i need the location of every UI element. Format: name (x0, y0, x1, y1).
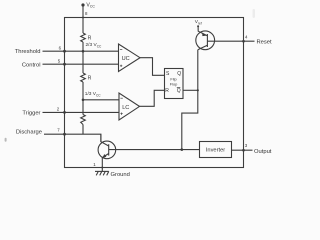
node pin 7 dot (63, 133, 66, 136)
transistor Q1 reset circle (196, 31, 215, 50)
node pin 8 dot (82, 17, 84, 19)
node Qbar junction dot (197, 89, 199, 91)
ground hatch strokes (96, 171, 109, 175)
node pin 1 dot (101, 167, 103, 169)
resistor R2 (81, 73, 86, 82)
ground symbol bar (95, 170, 109, 172)
wire Vcc down to R1 (82, 5, 84, 33)
wire 1/3 Vcc node to LC (83, 99, 119, 101)
svg-text:Inverter: Inverter (206, 148, 225, 154)
transistor Q2 emitter arrow (103, 154, 107, 158)
flip-flop Qbar overbar (177, 86, 181, 88)
svg-text:Flop: Flop (170, 81, 178, 86)
node base line junction dot (181, 148, 184, 151)
svg-text:Threshold: Threshold (15, 49, 41, 55)
node 1/3 Vcc junction dot (82, 99, 85, 102)
transistor Q1 base bar (206, 34, 208, 47)
wire Trigger pin 2 line (43, 111, 120, 113)
flip-flop U1 box (165, 69, 184, 99)
wire R2 to R3 (82, 82, 84, 115)
wire R3 to discharge line (82, 125, 84, 135)
resistor R3 (81, 115, 86, 125)
svg-text:LC: LC (122, 105, 129, 111)
svg-text:Ground: Ground (111, 172, 130, 178)
wire Output pin 3 line (232, 149, 253, 151)
wire reset base line pin 4 (207, 40, 254, 42)
node pin 6 dot (63, 50, 66, 53)
op-amp UC plus sign (120, 65, 122, 67)
svg-text:Control: Control (22, 62, 41, 68)
wire Threshold pin 6 line (43, 50, 119, 52)
wire UC output to flip-flop S (140, 58, 165, 76)
svg-text:UC: UC (122, 56, 130, 62)
op-amp UC minus sign (120, 48, 122, 50)
node pin 5 dot (63, 63, 66, 66)
outer IC boundary box (65, 18, 244, 168)
wire Discharge pin 7 line (44, 134, 101, 142)
svg-text:R: R (88, 76, 92, 82)
transistor Q2 collector diagonal (101, 134, 109, 146)
svg-text:Q: Q (177, 71, 181, 77)
node pin 3 dot (242, 149, 245, 152)
svg-text:R: R (88, 36, 92, 42)
svg-text:Reset: Reset (257, 39, 273, 45)
transistor Q2 emitter diagonal (102, 154, 108, 172)
resistor R1 (81, 33, 86, 42)
wire Control pin 5 line (43, 63, 119, 65)
svg-text:Output: Output (254, 149, 272, 155)
svg-text:Q: Q (177, 88, 181, 94)
artifact faint smudge top right (253, 9, 256, 18)
transistor Q2 discharge circle (98, 141, 116, 159)
svg-text:R: R (165, 88, 169, 94)
wire R1 to R2 (82, 42, 84, 73)
node pin 4 dot (242, 40, 245, 43)
node Vref terminal dot (197, 25, 199, 27)
op-amp LC plus sign (120, 113, 122, 115)
node Vcc terminal dot (81, 3, 84, 6)
transistor Q1 emitter to Vref (198, 26, 207, 36)
op-amp UC comparator (119, 44, 141, 72)
op-amp LC minus sign (120, 97, 122, 99)
wire LC output to flip-flop R (140, 90, 165, 106)
node pin 2 dot (63, 111, 66, 114)
wire Qbar output (183, 89, 198, 91)
op-amp LC comparator (119, 93, 140, 120)
transistor Q1 collector diagonal (198, 45, 208, 50)
transistor Q1 emitter arrow (202, 33, 206, 37)
svg-text:Discharge: Discharge (16, 129, 42, 135)
artifact faint smudge left (5, 138, 7, 142)
svg-text:Trigger: Trigger (22, 111, 40, 117)
wire Q1 collector down to Qbar node and base line junction (182, 50, 198, 150)
transistor Q2 base bar (108, 144, 110, 155)
node 2/3 Vcc junction dot (82, 50, 85, 53)
wire base line to inverter input (109, 149, 200, 151)
inverter box (200, 142, 232, 158)
